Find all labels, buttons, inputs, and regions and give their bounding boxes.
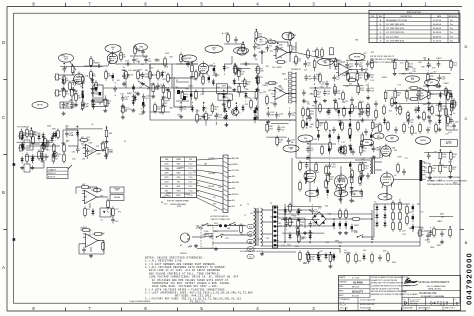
resistor R111 — [325, 120, 328, 131]
ground — [121, 105, 125, 109]
junction — [307, 143, 309, 145]
diode CR17 — [191, 105, 194, 112]
wire — [191, 62, 193, 63]
wire — [338, 143, 340, 146]
resistor R5 — [90, 56, 98, 67]
resistor R23 — [295, 54, 301, 65]
wire — [305, 254, 334, 256]
wire — [438, 83, 440, 86]
svg-text:SCHN 1-100: SCHN 1-100 — [410, 301, 419, 303]
capacitor C76 — [329, 132, 331, 140]
svg-text:CR4: CR4 — [86, 137, 90, 139]
wire — [350, 69, 358, 71]
capacitor C108 — [360, 175, 362, 183]
resistor R132 — [313, 59, 316, 70]
resistor R122 — [104, 97, 111, 108]
capacitor C126 — [214, 113, 222, 120]
svg-text:CR4: CR4 — [185, 89, 189, 91]
junction — [234, 63, 236, 65]
wire — [79, 243, 85, 245]
junction — [449, 226, 451, 228]
resistor R25 — [316, 47, 319, 58]
ground — [360, 118, 364, 122]
wire — [30, 127, 32, 129]
diode CR41 — [31, 154, 34, 161]
svg-text:P1-5: P1-5 — [189, 173, 193, 175]
wire — [309, 182, 311, 202]
svg-text:12AX7: 12AX7 — [426, 65, 431, 68]
wire — [286, 217, 288, 218]
svg-text:B+: B+ — [311, 94, 313, 96]
wire — [261, 209, 275, 211]
wire — [197, 175, 224, 181]
wire — [66, 140, 68, 142]
diode CR1 — [241, 104, 244, 111]
wire — [284, 204, 286, 242]
ground — [89, 254, 93, 258]
wire — [47, 140, 49, 146]
balloon label REVERB — [349, 53, 365, 60]
wire — [306, 117, 308, 120]
wire — [315, 100, 317, 120]
capacitor C33 — [351, 224, 353, 232]
svg-text:D: D — [465, 44, 468, 49]
wire — [390, 103, 453, 105]
wire — [245, 101, 247, 102]
ground — [122, 82, 126, 86]
stock number 0047920000 — [465, 252, 474, 305]
wire — [296, 53, 330, 61]
resistor R81 — [433, 226, 436, 237]
resistor R7 — [95, 80, 98, 91]
wire — [399, 72, 451, 74]
wire — [265, 41, 266, 43]
svg-text:REVISIONS: REVISIONS — [407, 11, 421, 15]
svg-text:CO 1067 PER ECN: CO 1067 PER ECN — [386, 24, 405, 26]
resistor R104 — [321, 144, 324, 155]
svg-text:B+: B+ — [424, 59, 426, 61]
wire — [372, 130, 374, 133]
resistor R174 — [406, 60, 413, 71]
ground — [142, 103, 146, 107]
wire — [326, 218, 334, 220]
diode CR25 — [244, 91, 247, 98]
ground — [323, 99, 327, 103]
wire — [90, 56, 92, 57]
capacitor C6 — [144, 57, 152, 64]
wire — [309, 230, 311, 231]
capacitor C29 — [82, 247, 86, 254]
junction — [408, 115, 410, 117]
resistor R118 — [162, 103, 165, 114]
svg-text:R31: R31 — [334, 69, 337, 71]
junction — [123, 70, 125, 72]
resistor R191 — [447, 90, 450, 101]
resistor R13 — [195, 69, 202, 80]
wire — [287, 205, 322, 207]
svg-text:022: 022 — [317, 79, 320, 81]
resistor R29 — [302, 106, 305, 117]
ground — [361, 173, 365, 177]
resistor R182 — [449, 227, 452, 238]
ground — [166, 88, 170, 92]
svg-text:SIZE: SIZE — [403, 298, 406, 300]
wire — [349, 130, 351, 133]
wire — [316, 119, 376, 121]
svg-text:B+: B+ — [205, 107, 207, 109]
wire — [106, 126, 108, 128]
svg-text:.1: .1 — [279, 116, 280, 118]
wire — [233, 68, 251, 70]
capacitor C56 — [190, 91, 192, 99]
resistor R189 — [307, 253, 315, 264]
wire — [303, 99, 305, 101]
svg-text:1K5: 1K5 — [397, 95, 400, 97]
svg-text:ZON: ZON — [371, 16, 374, 18]
wire — [55, 139, 57, 141]
wire — [70, 62, 76, 70]
wire — [43, 160, 45, 168]
wire — [298, 231, 300, 232]
svg-text:CO 1112 PER ECN: CO 1112 PER ECN — [386, 32, 404, 34]
resistor R100 — [419, 122, 422, 133]
wire — [300, 161, 367, 163]
ground — [81, 103, 85, 107]
op-amp U1B — [272, 85, 288, 99]
resistor R67 — [92, 233, 103, 236]
wire — [106, 139, 108, 141]
capacitor C20 — [325, 81, 329, 88]
wire — [124, 63, 160, 65]
capacitor C31 — [339, 221, 341, 229]
ground — [62, 111, 66, 115]
wire — [42, 141, 44, 143]
junction — [371, 218, 373, 220]
resistor R185 — [196, 112, 203, 123]
resistor R10 — [157, 69, 163, 80]
diode CR38 — [297, 208, 300, 215]
capacitor C95 — [310, 208, 319, 215]
diode CR43 — [134, 95, 137, 102]
svg-text:CR4: CR4 — [72, 152, 76, 154]
jack J4 FS TIP — [18, 133, 24, 139]
wire — [328, 158, 330, 161]
svg-text:Q1: Q1 — [238, 112, 240, 114]
ground — [448, 175, 452, 179]
wire — [287, 42, 289, 47]
resistor R95 — [397, 162, 400, 173]
capacitor C54 — [142, 100, 144, 108]
vacuum tube V2A — [198, 61, 213, 76]
wire — [445, 88, 447, 130]
resistor R121 — [297, 226, 300, 237]
wire — [160, 63, 168, 65]
ground — [132, 94, 136, 98]
svg-text:1K5: 1K5 — [100, 195, 103, 197]
op-amp U2A — [336, 60, 352, 75]
svg-text:R31: R31 — [163, 79, 166, 81]
resistor R32 — [346, 77, 357, 86]
relay K2 — [93, 85, 103, 106]
wire — [77, 125, 79, 127]
svg-text:2K2: 2K2 — [452, 169, 455, 171]
svg-text:3K3: 3K3 — [246, 84, 249, 86]
capacitor C25 — [234, 37, 238, 44]
resistor R97 — [387, 120, 390, 131]
resistor R110 — [375, 108, 378, 119]
balloon label V2 — [205, 45, 223, 53]
wire — [361, 218, 372, 220]
svg-text:CR4: CR4 — [320, 87, 324, 89]
ground — [306, 156, 310, 160]
wire — [215, 122, 217, 125]
wire — [82, 98, 84, 101]
svg-text:C12: C12 — [418, 118, 421, 120]
wire — [350, 72, 368, 74]
wire — [224, 43, 244, 45]
wire — [328, 155, 330, 158]
resistor R105 — [319, 102, 322, 113]
capacitor C85 — [350, 145, 352, 153]
wire — [60, 90, 68, 92]
wire — [267, 107, 269, 108]
resistor R102 — [344, 144, 347, 155]
capacitor C23 — [414, 107, 418, 114]
wire — [311, 204, 313, 205]
wire — [106, 143, 108, 145]
wire — [82, 85, 84, 88]
op-amp U2B — [417, 86, 433, 100]
svg-text:TP2: TP2 — [312, 106, 315, 108]
capacitor C103 — [328, 162, 336, 169]
resistor R72 — [350, 218, 361, 221]
diode CR20 — [223, 64, 226, 71]
resistor R106 — [335, 100, 338, 111]
resistor R31 — [327, 59, 338, 62]
svg-text:4K7: 4K7 — [81, 137, 84, 139]
wire — [281, 219, 320, 221]
balloon label PRESENCE — [416, 137, 431, 145]
resistor R60 — [102, 140, 105, 151]
resistor R168 — [450, 150, 457, 161]
svg-text:CR4: CR4 — [82, 159, 86, 161]
resistor R82 — [299, 250, 302, 261]
capacitor C13 — [243, 62, 250, 66]
svg-text:D: D — [2, 40, 5, 45]
wire — [338, 117, 340, 120]
diode CR39 — [309, 233, 312, 240]
svg-text:BLK: BLK — [249, 226, 252, 228]
ground — [41, 142, 45, 146]
zone tick — [401, 3, 403, 7]
junction — [360, 143, 362, 145]
svg-text:.022: .022 — [361, 158, 365, 160]
capacitor C36 — [412, 224, 414, 232]
svg-text:B+: B+ — [72, 135, 74, 137]
svg-text:.047: .047 — [281, 130, 284, 132]
resistor R39 — [445, 106, 448, 117]
svg-text:SWITCH: SWITCH — [222, 97, 228, 99]
svg-text:12AX7: 12AX7 — [436, 57, 441, 60]
balloon label NFB — [298, 135, 313, 142]
op-amp U3A — [83, 141, 99, 156]
svg-text:.047: .047 — [310, 150, 313, 152]
ground — [151, 94, 155, 98]
ground — [72, 88, 76, 92]
wire — [150, 119, 296, 121]
resistor R14 — [202, 74, 205, 85]
svg-text:R31: R31 — [352, 201, 355, 203]
capacitor C123 — [65, 131, 74, 138]
resistor R47 — [399, 104, 402, 115]
wire — [287, 52, 296, 54]
diode CR27 — [383, 117, 386, 124]
svg-text:1K5: 1K5 — [193, 172, 196, 174]
resistor R193 — [447, 114, 450, 125]
junction — [223, 90, 225, 92]
capacitor C16 — [308, 115, 312, 122]
svg-text:B+: B+ — [84, 142, 86, 144]
resistor R153 — [30, 128, 38, 139]
resistor R18 — [250, 98, 253, 109]
capacitor C66 — [333, 89, 341, 96]
resistor R30 — [302, 118, 305, 129]
resistor R147 — [71, 87, 78, 98]
wire — [278, 217, 305, 219]
resistor R49 — [423, 110, 426, 121]
svg-text:4K7: 4K7 — [279, 142, 282, 144]
wire — [227, 225, 246, 227]
svg-text:B+: B+ — [146, 60, 148, 62]
capacitor C105 — [338, 176, 347, 183]
capacitor C24 — [141, 49, 145, 56]
resistor R116 — [26, 152, 29, 163]
zone tick — [3, 229, 7, 231]
wire — [450, 126, 452, 127]
resistor R70 — [339, 208, 342, 219]
label box FOOTSWITCH — [218, 94, 232, 100]
svg-text:.022: .022 — [402, 234, 406, 236]
svg-text:BRIGHT: BRIGHT — [37, 105, 43, 107]
resistor R84 — [347, 252, 350, 263]
svg-text:TP2: TP2 — [270, 51, 273, 53]
svg-text:07-10-96: 07-10-96 — [433, 40, 442, 42]
capacitor C79 — [339, 120, 341, 128]
resistor R11 — [164, 56, 167, 67]
resistor R24 — [307, 48, 310, 59]
junction — [106, 127, 108, 128]
svg-text:CR4: CR4 — [326, 242, 330, 244]
wire — [290, 53, 292, 55]
svg-text:CR4: CR4 — [322, 61, 326, 63]
wire — [278, 209, 310, 211]
resistor R124 — [162, 83, 169, 94]
svg-text:B+: B+ — [81, 109, 83, 111]
wire — [114, 82, 116, 83]
potentiometer VR2 — [137, 70, 144, 81]
ground — [74, 103, 78, 107]
capacitor C91 — [72, 78, 81, 85]
svg-text:S.T. 11-93: S.T. 11-93 — [352, 278, 359, 280]
wire — [417, 100, 419, 101]
caption EXPORT TRANSFORMER WIRING DIAGRAM — [167, 200, 189, 206]
resistor R17 — [228, 98, 231, 109]
svg-text:DRIVE CH: DRIVE CH — [48, 173, 55, 175]
wire — [309, 140, 311, 162]
resistor R99 — [411, 124, 414, 135]
svg-text:TITLE: TITLE — [403, 291, 407, 293]
wire — [261, 221, 275, 223]
wire — [97, 196, 108, 198]
capacitor C107 — [350, 189, 358, 196]
balloon label WHT — [247, 232, 254, 237]
svg-text:1K5: 1K5 — [389, 111, 392, 113]
capacitor C99 — [276, 46, 284, 53]
wire — [340, 166, 342, 175]
wire — [191, 102, 193, 103]
wire — [77, 130, 79, 147]
wire — [435, 228, 446, 230]
jack J2 INPUT 2 — [54, 90, 60, 96]
svg-text:.022: .022 — [363, 250, 367, 252]
wire — [310, 143, 336, 145]
balloon label BRIGHT — [32, 102, 48, 109]
junction — [71, 99, 73, 101]
svg-text:B+: B+ — [374, 202, 376, 204]
ground — [255, 115, 259, 119]
zone tick — [65, 307, 67, 311]
wire — [306, 158, 308, 161]
svg-text:R31: R31 — [259, 77, 262, 79]
svg-text:2K2: 2K2 — [298, 61, 301, 63]
diode CR19 — [212, 79, 215, 86]
border zone marker — [13, 238, 16, 241]
diode CR15 — [132, 99, 135, 106]
svg-text:C12: C12 — [141, 64, 144, 66]
zone tick — [177, 307, 179, 311]
wire — [286, 93, 296, 95]
svg-text:3K3: 3K3 — [363, 150, 366, 152]
wire — [213, 230, 238, 232]
svg-text:TP2: TP2 — [279, 87, 282, 89]
resistor R43 — [359, 100, 362, 111]
wire — [289, 120, 291, 121]
wire — [68, 165, 72, 169]
svg-text:820: 820 — [292, 49, 295, 51]
junction — [309, 241, 311, 243]
resistor R15 — [168, 89, 171, 100]
ground — [136, 92, 140, 96]
wire — [385, 101, 387, 102]
wire — [439, 113, 441, 114]
wire — [82, 90, 84, 93]
diode CR26 — [256, 78, 259, 85]
wire — [202, 88, 204, 94]
resistor R42 — [342, 90, 345, 101]
svg-text:TP2: TP2 — [96, 146, 99, 148]
wire — [375, 161, 382, 163]
junction — [329, 130, 331, 132]
svg-text:Pw: Pw — [450, 24, 453, 26]
wire — [63, 129, 78, 131]
resistor R151 — [298, 232, 305, 243]
resistor R176 — [450, 59, 458, 70]
capacitor C67 — [395, 105, 403, 112]
resistor R36 — [408, 98, 419, 101]
svg-text:R31: R31 — [432, 68, 435, 70]
svg-text:1K5: 1K5 — [278, 223, 281, 225]
resistor R152 — [20, 129, 27, 140]
